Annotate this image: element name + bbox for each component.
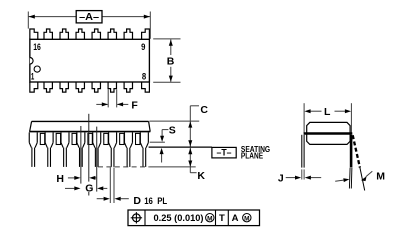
svg-text:B: B	[167, 56, 175, 68]
svg-text:M: M	[244, 216, 249, 223]
svg-text:–A–: –A–	[79, 12, 99, 23]
svg-text:H: H	[56, 173, 64, 185]
svg-text:0.25 (0.010): 0.25 (0.010)	[154, 213, 204, 224]
svg-text:9: 9	[141, 42, 145, 52]
svg-text:PLANE: PLANE	[241, 152, 264, 161]
svg-text:16 PL: 16 PL	[144, 196, 167, 206]
svg-text:D: D	[133, 195, 141, 207]
svg-text:J: J	[278, 173, 284, 185]
svg-text:–T–: –T–	[217, 148, 232, 158]
svg-text:16: 16	[33, 42, 41, 52]
svg-text:1: 1	[31, 72, 34, 82]
svg-text:F: F	[131, 100, 138, 112]
svg-text:L: L	[324, 106, 331, 118]
svg-text:M: M	[207, 216, 212, 223]
svg-text:T: T	[219, 213, 225, 224]
svg-text:8: 8	[142, 72, 146, 82]
svg-text:S: S	[169, 125, 176, 137]
svg-text:M: M	[376, 170, 385, 182]
svg-text:K: K	[197, 170, 205, 182]
svg-text:G: G	[85, 183, 93, 195]
svg-text:A: A	[232, 213, 239, 224]
svg-text:C: C	[200, 104, 208, 116]
